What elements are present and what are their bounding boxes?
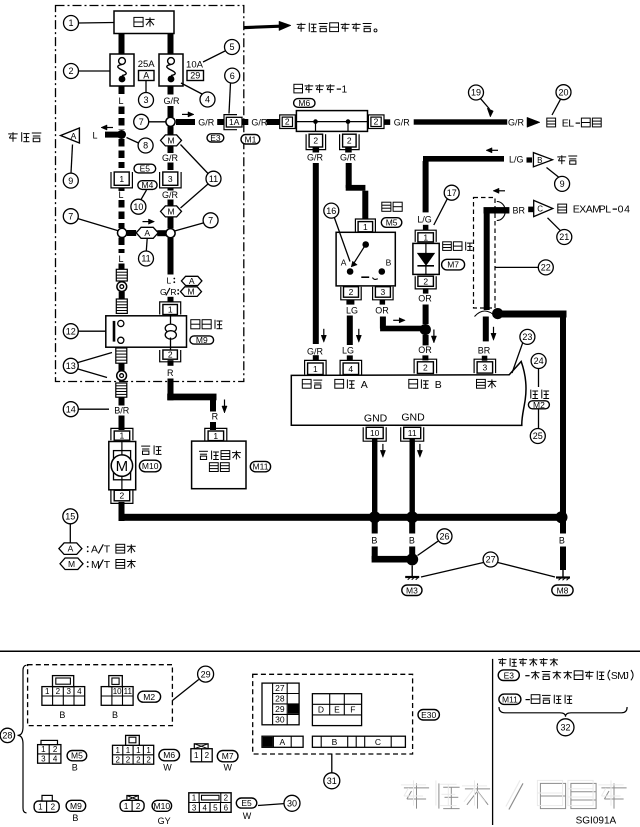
svg-text:G/R: G/R xyxy=(394,117,411,127)
svg-text:2: 2 xyxy=(423,363,428,373)
svg-text:A: A xyxy=(143,71,149,81)
svg-text:1: 1 xyxy=(168,305,173,315)
svg-text:M: M xyxy=(91,559,100,571)
svg-text:32: 32 xyxy=(560,723,570,733)
svg-text:D: D xyxy=(318,705,324,715)
svg-text:M9: M9 xyxy=(196,335,208,345)
svg-text:7: 7 xyxy=(139,117,144,127)
svg-text:15: 15 xyxy=(65,512,75,522)
svg-text:G/R: G/R xyxy=(162,190,179,200)
svg-text:4: 4 xyxy=(202,803,207,812)
svg-text:1: 1 xyxy=(192,793,197,802)
svg-text:M2: M2 xyxy=(533,400,545,410)
svg-text:OR: OR xyxy=(418,345,432,355)
svg-text:2: 2 xyxy=(205,751,210,760)
svg-text:10: 10 xyxy=(370,428,380,438)
svg-text:W: W xyxy=(223,763,232,773)
svg-text:1: 1 xyxy=(45,687,50,696)
svg-text:1: 1 xyxy=(119,174,124,184)
svg-text:2: 2 xyxy=(146,755,151,764)
svg-text:G/R: G/R xyxy=(340,152,357,162)
svg-text:BR: BR xyxy=(478,345,491,355)
svg-text:28: 28 xyxy=(275,694,285,704)
svg-text:M8: M8 xyxy=(557,585,569,595)
svg-text:2: 2 xyxy=(423,276,428,286)
svg-text:13: 13 xyxy=(66,361,76,371)
svg-text:E30: E30 xyxy=(421,710,436,720)
svg-text:M9: M9 xyxy=(70,801,82,811)
svg-text:2: 2 xyxy=(347,136,352,146)
svg-text:M6: M6 xyxy=(163,750,175,760)
svg-text:1: 1 xyxy=(124,802,129,811)
svg-text:M: M xyxy=(167,136,174,146)
svg-text:M2: M2 xyxy=(143,692,155,702)
svg-text:M: M xyxy=(187,287,194,297)
svg-text:M3: M3 xyxy=(406,585,418,595)
svg-text:W: W xyxy=(163,763,172,773)
svg-text:4: 4 xyxy=(624,204,630,216)
svg-text:G/R: G/R xyxy=(162,153,179,163)
svg-text:B/R: B/R xyxy=(114,406,130,416)
svg-text:3: 3 xyxy=(192,803,197,812)
svg-text:2: 2 xyxy=(285,117,290,127)
svg-text:B: B xyxy=(409,535,415,545)
svg-text:20: 20 xyxy=(558,87,568,97)
svg-text:M5: M5 xyxy=(386,218,398,228)
svg-text:A: A xyxy=(68,544,74,554)
svg-text:1: 1 xyxy=(41,745,46,754)
svg-text:29: 29 xyxy=(275,704,285,714)
svg-text:11: 11 xyxy=(209,174,218,184)
svg-text:5: 5 xyxy=(213,803,218,812)
svg-text:2: 2 xyxy=(136,802,141,811)
svg-text:B: B xyxy=(371,535,377,545)
svg-text:M11: M11 xyxy=(253,462,269,472)
svg-text:1: 1 xyxy=(120,431,125,441)
svg-text:29: 29 xyxy=(201,669,211,679)
svg-text:25: 25 xyxy=(533,431,543,441)
svg-text:GND: GND xyxy=(401,411,425,423)
svg-text:A: A xyxy=(341,257,347,267)
svg-text:1: 1 xyxy=(313,364,318,374)
svg-text:2: 2 xyxy=(51,803,56,812)
svg-text:2: 2 xyxy=(126,755,131,764)
svg-text:A: A xyxy=(71,131,77,141)
svg-text:B: B xyxy=(332,737,338,747)
svg-text:M4: M4 xyxy=(141,180,153,190)
svg-text:1: 1 xyxy=(146,746,151,755)
svg-text:2: 2 xyxy=(224,793,229,802)
svg-text:L/G: L/G xyxy=(417,214,432,224)
svg-text:R: R xyxy=(212,412,219,422)
svg-text:GY: GY xyxy=(158,816,171,826)
svg-text:1: 1 xyxy=(136,746,141,755)
svg-text:26: 26 xyxy=(439,532,449,542)
svg-text:3: 3 xyxy=(66,687,71,696)
svg-text:G/R: G/R xyxy=(198,117,215,127)
svg-text:1: 1 xyxy=(194,751,199,760)
svg-text:4: 4 xyxy=(348,364,353,374)
svg-text:C: C xyxy=(537,205,543,214)
svg-text:4: 4 xyxy=(205,95,210,105)
svg-text:3: 3 xyxy=(381,287,386,297)
svg-text:4: 4 xyxy=(53,754,58,763)
svg-text:B: B xyxy=(559,535,565,545)
svg-text:LG: LG xyxy=(346,305,358,315)
svg-text:25A: 25A xyxy=(138,59,156,70)
svg-text:11: 11 xyxy=(408,428,417,438)
svg-text:1: 1 xyxy=(363,222,368,232)
svg-text:1A: 1A xyxy=(229,117,240,127)
svg-text:6: 6 xyxy=(224,803,229,812)
svg-text:BR: BR xyxy=(513,205,526,215)
svg-text:E: E xyxy=(334,705,340,715)
svg-text:7: 7 xyxy=(68,211,73,221)
svg-text:2: 2 xyxy=(168,350,173,360)
svg-text:OR: OR xyxy=(375,306,389,316)
svg-text:OR: OR xyxy=(418,294,432,304)
svg-text:LG: LG xyxy=(342,346,354,356)
svg-text:A: A xyxy=(144,228,150,238)
svg-text:B: B xyxy=(72,763,78,773)
svg-text:9: 9 xyxy=(68,176,73,186)
svg-text:L: L xyxy=(167,275,172,285)
svg-text:10: 10 xyxy=(113,687,122,696)
svg-text:A: A xyxy=(361,379,368,391)
svg-text:1: 1 xyxy=(423,233,428,243)
svg-text:B: B xyxy=(72,813,78,823)
svg-text:19: 19 xyxy=(471,88,481,98)
svg-text:16: 16 xyxy=(326,206,336,216)
svg-text:3: 3 xyxy=(143,95,148,105)
svg-text:M7: M7 xyxy=(222,751,234,761)
svg-text:1: 1 xyxy=(38,803,43,812)
svg-text:4: 4 xyxy=(77,687,82,696)
svg-text:A: A xyxy=(189,276,195,286)
svg-text:G/R: G/R xyxy=(508,117,525,127)
svg-text:L/G: L/G xyxy=(509,155,524,165)
svg-text:F: F xyxy=(350,705,355,715)
svg-text:L: L xyxy=(118,96,123,106)
svg-text:3: 3 xyxy=(41,754,46,763)
svg-text:L: L xyxy=(568,118,574,130)
svg-text:M5: M5 xyxy=(71,751,83,761)
svg-text:30: 30 xyxy=(287,799,297,809)
svg-text:23: 23 xyxy=(522,332,532,342)
svg-text:G/R: G/R xyxy=(307,152,324,162)
svg-text:2: 2 xyxy=(349,287,354,297)
svg-text:B: B xyxy=(386,257,392,267)
svg-text:T: T xyxy=(104,559,111,571)
svg-text:1: 1 xyxy=(213,431,218,441)
svg-text:1: 1 xyxy=(68,18,73,28)
svg-text:R: R xyxy=(170,287,176,297)
svg-text:1: 1 xyxy=(342,85,348,96)
svg-text:M: M xyxy=(68,559,75,569)
svg-text:27: 27 xyxy=(486,555,496,565)
svg-text:2: 2 xyxy=(115,755,120,764)
svg-text:28: 28 xyxy=(2,731,12,741)
svg-text:31: 31 xyxy=(327,776,337,786)
svg-text:J: J xyxy=(624,671,629,682)
svg-text:1: 1 xyxy=(115,746,120,755)
svg-text:14: 14 xyxy=(66,404,76,414)
svg-text:8: 8 xyxy=(143,141,148,151)
svg-text:C: C xyxy=(375,737,381,747)
svg-text:22: 22 xyxy=(541,263,551,273)
svg-text:G: G xyxy=(160,287,167,297)
svg-text:SGI091A: SGI091A xyxy=(576,816,617,827)
svg-text:B: B xyxy=(112,710,118,720)
svg-text:2: 2 xyxy=(56,687,61,696)
svg-text:E3: E3 xyxy=(504,670,515,680)
svg-text:L: L xyxy=(605,204,611,216)
svg-text:L: L xyxy=(118,190,123,200)
svg-text:29: 29 xyxy=(190,71,200,81)
svg-text:A: A xyxy=(91,544,98,556)
svg-text:R: R xyxy=(167,368,174,378)
svg-text:M7: M7 xyxy=(447,260,459,270)
svg-text:24: 24 xyxy=(534,356,544,366)
svg-text:W: W xyxy=(243,811,252,821)
svg-text:M10: M10 xyxy=(142,461,159,471)
svg-text:6: 6 xyxy=(230,71,235,81)
svg-text:27: 27 xyxy=(275,683,285,693)
svg-text:M10: M10 xyxy=(154,801,171,811)
svg-text:L: L xyxy=(92,130,97,140)
svg-text:G/R: G/R xyxy=(307,346,324,356)
svg-text:E5: E5 xyxy=(241,798,252,808)
svg-text:9: 9 xyxy=(560,179,565,189)
svg-text:T: T xyxy=(104,544,111,556)
svg-text:G/R: G/R xyxy=(163,96,180,106)
svg-text:2: 2 xyxy=(53,745,58,754)
svg-text:L: L xyxy=(118,254,123,264)
svg-text:5: 5 xyxy=(229,42,234,52)
svg-text:B: B xyxy=(537,156,542,165)
svg-text:1: 1 xyxy=(126,746,131,755)
svg-text:E5: E5 xyxy=(140,164,151,174)
svg-text:7: 7 xyxy=(208,216,213,226)
svg-text:30: 30 xyxy=(275,714,285,724)
svg-text:M1: M1 xyxy=(244,134,256,144)
svg-text:2: 2 xyxy=(136,755,141,764)
svg-text:12: 12 xyxy=(66,326,76,336)
svg-text:2: 2 xyxy=(120,491,125,501)
svg-text:A: A xyxy=(279,737,285,747)
svg-text:3: 3 xyxy=(483,363,488,373)
svg-text:M6: M6 xyxy=(298,98,310,108)
svg-text:B: B xyxy=(435,379,442,391)
svg-text:11: 11 xyxy=(124,687,133,696)
svg-text:10: 10 xyxy=(133,202,143,212)
svg-text:E3: E3 xyxy=(210,133,221,143)
svg-text:M11: M11 xyxy=(502,694,518,704)
svg-text:M: M xyxy=(116,458,129,475)
svg-text:G/R: G/R xyxy=(251,117,268,127)
svg-text:B: B xyxy=(59,710,65,720)
svg-text:11: 11 xyxy=(141,254,150,264)
svg-text:10A: 10A xyxy=(186,60,204,71)
svg-text:2: 2 xyxy=(313,136,318,146)
svg-text:2: 2 xyxy=(374,117,379,127)
svg-text:0: 0 xyxy=(618,204,624,216)
svg-text:21: 21 xyxy=(559,232,569,242)
svg-text:17: 17 xyxy=(447,188,457,198)
svg-text:2: 2 xyxy=(68,66,73,76)
svg-text:3: 3 xyxy=(168,174,173,184)
svg-text:GND: GND xyxy=(364,413,388,425)
svg-text:M: M xyxy=(167,207,174,217)
